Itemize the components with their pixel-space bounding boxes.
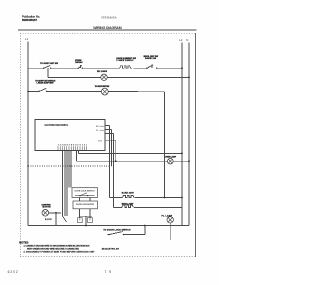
svg-text:FEF366ASA: FEF366ASA bbox=[102, 17, 117, 20]
svg-text:PL LAMP: PL LAMP bbox=[162, 214, 173, 217]
svg-text:WIRING DIAGRAM: WIRING DIAGRAM bbox=[93, 26, 122, 30]
svg-text:OVEN LAMP: OVEN LAMP bbox=[165, 156, 177, 159]
svg-text:TO DOOR LOCK SWITCH: TO DOOR LOCK SWITCH bbox=[103, 229, 130, 231]
svg-text:N: N bbox=[186, 38, 188, 42]
svg-text:ELECTRONIC OVEN CONTROL: ELECTRONIC OVEN CONTROL bbox=[45, 124, 70, 127]
svg-text:1234567891011121: 1234567891011121 bbox=[58, 144, 88, 147]
svg-text:NOTES: NOTES bbox=[19, 240, 28, 244]
svg-text:DLB: DLB bbox=[98, 141, 103, 143]
svg-text:79: 79 bbox=[105, 270, 112, 274]
svg-text:2 600W 240VAC: 2 600W 240VAC bbox=[116, 59, 134, 62]
svg-text:3400W 240: 3400W 240 bbox=[145, 57, 156, 60]
svg-text:DOOR LOCK MOTOR: DOOR LOCK MOTOR bbox=[76, 204, 95, 206]
svg-text:316219700-09: 316219700-09 bbox=[102, 249, 120, 251]
svg-text:DOOR LOCK SWITCH: DOOR LOCK SWITCH bbox=[75, 190, 96, 192]
svg-text:L2: L2 bbox=[179, 38, 183, 42]
svg-text:TO SURF UNIT SW: TO SURF UNIT SW bbox=[40, 63, 58, 65]
svg-text:WITH GREEN GROUND WIRE SECUREL: WITH GREEN GROUND WIRE SECURELY CONNECTE… bbox=[27, 249, 79, 251]
svg-text:BAKE 240V: BAKE 240V bbox=[122, 191, 135, 194]
svg-text:115V: 115V bbox=[45, 219, 52, 221]
svg-text:5995438167: 5995438167 bbox=[22, 18, 37, 22]
svg-text:1. CONNECT GROUND WIRE TO GROU: 1. CONNECT GROUND WIRE TO GROUNDING SCRE… bbox=[24, 246, 91, 248]
svg-text:Publication No.: Publication No. bbox=[22, 14, 40, 18]
svg-text:L1: L1 bbox=[25, 37, 29, 41]
svg-text:BK: BK bbox=[96, 126, 99, 128]
svg-text:L REAR SURF UNIT: L REAR SURF UNIT bbox=[37, 82, 55, 85]
svg-text:MOTOR: MOTOR bbox=[43, 207, 52, 209]
svg-text:240VAC: 240VAC bbox=[75, 61, 83, 64]
svg-text:2. DISCONNECT POWER AT MAIN FU: 2. DISCONNECT POWER AT MAIN FUSE BEFORE … bbox=[24, 251, 96, 254]
svg-text:BROIL 240V: BROIL 240V bbox=[122, 203, 134, 206]
svg-text:TO SURF UNIT SW: TO SURF UNIT SW bbox=[95, 86, 110, 88]
svg-text:W: W bbox=[96, 130, 98, 132]
svg-text:RR 2100W: RR 2100W bbox=[97, 71, 107, 73]
svg-text:6202: 6202 bbox=[8, 270, 18, 274]
